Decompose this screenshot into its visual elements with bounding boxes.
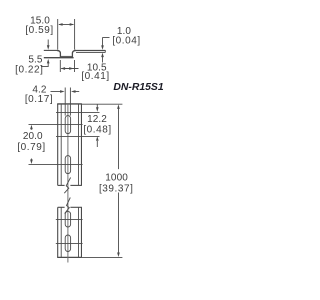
svg-text:[0.04]: [0.04] [112, 35, 140, 46]
dimension 15.0 extension line right [74, 19, 76, 50]
svg-text:[39.37]: [39.37] [99, 183, 133, 194]
dimension 10.5 line [61, 68, 78, 70]
rail front view outer edges [57, 104, 59, 186]
dimension 1.0 bracket and arrows [103, 36, 110, 38]
slot 3 [65, 211, 70, 227]
dimension 4.2 right arrow [75, 91, 79, 93]
svg-text:[0.22]: [0.22] [15, 64, 43, 75]
dimension 12.2 arrows [96, 104, 98, 108]
slot 1 [65, 116, 70, 134]
dimension 1000 line [117, 108, 119, 169]
dimension 1000 top extension [82, 103, 123, 105]
dimension 4.2 extension lines [64, 88, 66, 116]
dimension 5.5 lower arrow [47, 63, 49, 67]
break mark bottom [58, 206, 65, 208]
rail profile left flange top [44, 49, 57, 51]
svg-text:20.0: 20.0 [23, 131, 43, 142]
dimension 5.5 upper arrow [47, 40, 49, 46]
rail profile bottom line [44, 57, 74, 59]
slot1 centre mark / 20.0 top extension [29, 123, 83, 125]
slot 4 [65, 235, 70, 252]
rail front view top edge [57, 103, 82, 105]
rail profile right flange (thickness shown) [75, 49, 106, 51]
svg-text:[0.17]: [0.17] [25, 94, 53, 105]
dimension 15.0 extension line left [57, 19, 59, 50]
svg-text:[0.79]: [0.79] [17, 142, 45, 153]
break mark top [58, 184, 65, 186]
rail profile right step [72, 50, 76, 57]
dimension 15.0 line [59, 23, 73, 25]
slot 2 [65, 156, 70, 174]
dimension 4.2 left arrow [51, 91, 61, 93]
dimension 15.0 arrow left [58, 23, 63, 26]
svg-text:DN-R15S1: DN-R15S1 [113, 82, 163, 93]
slot centreline [67, 104, 69, 263]
rail front view bend lines [60, 104, 62, 186]
dimension 5.5 leader [41, 66, 49, 68]
svg-text:[0.59]: [0.59] [25, 25, 53, 36]
dimension 20.0 lower arrow [30, 159, 32, 161]
svg-text:1000: 1000 [105, 173, 128, 184]
dimension 10.5 extension lines [59, 60, 61, 72]
rail profile left step [57, 50, 60, 57]
slot2 centre mark / 20.0 bottom extension [29, 163, 83, 165]
svg-text:[0.41]: [0.41] [81, 71, 109, 82]
rail front view bottom edge [57, 256, 82, 258]
dimension 20.0 upper arrow [30, 128, 32, 130]
dimension 12.2 extension lines [56, 111, 100, 113]
slot3 centre mark [56, 218, 83, 220]
dimension 1000 bottom extension [82, 256, 122, 258]
rail profile channel inner bottom [61, 55, 72, 57]
dimension 15.0 arrow right [70, 23, 75, 26]
slot4 centre mark [56, 242, 83, 244]
svg-text:[0.48]: [0.48] [83, 124, 111, 135]
